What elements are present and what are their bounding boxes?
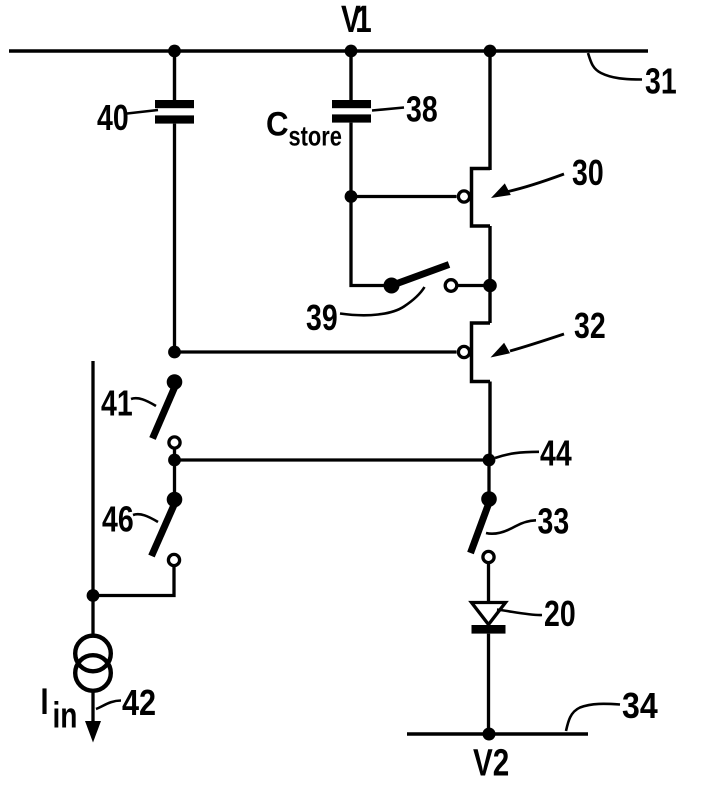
svg-text:40: 40 — [97, 97, 129, 138]
label C store — [266, 104, 342, 152]
switch 46 — [152, 492, 183, 566]
wire node 44 down to switch 33 — [487, 460, 490, 499]
node 44 left — [168, 454, 181, 467]
leader line to label 42 — [96, 701, 121, 710]
label 46 — [102, 498, 134, 539]
label 33 — [538, 500, 570, 541]
label 31 — [645, 60, 677, 101]
wire middle branch rail to capacitor 38 — [349, 51, 352, 101]
label I in — [41, 682, 78, 736]
svg-text:34: 34 — [622, 686, 658, 726]
wire left branch from rail to capacitor 40 — [173, 51, 176, 101]
label V2 — [473, 742, 509, 784]
wire bottom supply rail 34 — [407, 732, 588, 736]
capacitor C-store 38 — [332, 100, 371, 123]
svg-text:20: 20 — [544, 593, 576, 634]
leader line to label 46 — [133, 514, 158, 522]
switch 33 — [471, 491, 497, 562]
leader line to label 34 — [566, 704, 620, 731]
arrow pointing to transistor 30 — [491, 174, 564, 198]
svg-text:31: 31 — [645, 60, 677, 101]
svg-text:44: 44 — [540, 432, 572, 473]
wire transistor 30 to node of switch 39 — [488, 226, 491, 323]
transistor 30 gate bubble — [458, 191, 469, 202]
transistor 30 (PMOS, source-drain jog) — [472, 169, 491, 227]
leader line to label 39 — [340, 287, 425, 315]
label 34 — [622, 686, 658, 726]
label 41 — [101, 382, 133, 423]
wire gate of transistor 32 — [175, 350, 457, 353]
wire diode 20 to bottom rail — [487, 634, 490, 734]
svg-text:in: in — [53, 695, 78, 735]
node rail / left branch — [168, 45, 181, 58]
transistor 32 gate bubble — [458, 346, 469, 357]
label 30 — [572, 152, 604, 193]
diode 20 — [472, 603, 506, 634]
svg-text:46: 46 — [102, 498, 134, 539]
svg-text:41: 41 — [101, 382, 133, 423]
label V1 — [341, 0, 371, 41]
wire top supply rail 31 — [9, 49, 648, 53]
label 38 — [406, 88, 438, 129]
wire left branch capacitor 40 to gate node — [173, 124, 176, 352]
svg-text:I: I — [41, 682, 49, 723]
label 32 — [574, 305, 606, 346]
current source 42 — [75, 636, 111, 691]
wire right branch rail to transistor 30 — [488, 51, 491, 170]
node bottom rail — [483, 728, 496, 741]
svg-text:39: 39 — [306, 297, 338, 338]
capacitor 40 — [155, 100, 194, 124]
node rail / right branch — [484, 45, 497, 58]
arrowhead of current I in — [85, 721, 101, 743]
svg-text:33: 33 — [538, 500, 570, 541]
svg-text:30: 30 — [572, 152, 604, 193]
wire node 44 horizontal — [175, 458, 490, 461]
node gate tap of transistor 32 — [168, 346, 181, 359]
wire far-left vertical column line — [91, 361, 94, 635]
label 44 — [540, 432, 572, 473]
node bottom left — [87, 589, 100, 602]
node right of switch 39 — [483, 279, 497, 293]
leader line to label 33 — [486, 520, 536, 533]
arrow pointing to transistor 32 — [491, 334, 565, 358]
svg-text:38: 38 — [406, 88, 438, 129]
wire node 44 down to switch 46 — [173, 460, 176, 497]
svg-text:V1: V1 — [341, 0, 371, 41]
leader line to label 31 — [588, 53, 642, 80]
wire switch 33 to diode 20 — [487, 563, 490, 605]
leader line to label 44 — [495, 452, 539, 458]
label 39 — [306, 297, 338, 338]
leader line to label 20 — [497, 610, 542, 616]
svg-text:C: C — [266, 104, 289, 143]
transistor 32 (PMOS, source-drain jog) — [472, 323, 491, 382]
svg-text:32: 32 — [574, 305, 606, 346]
wire middle branch capacitor 38 down to switch 39 elbow — [351, 123, 387, 286]
label 20 — [544, 593, 576, 634]
node rail / middle branch — [345, 45, 358, 58]
label 42 — [122, 683, 156, 724]
switch 39 — [384, 265, 485, 294]
svg-text:42: 42 — [122, 683, 156, 724]
wire gate of transistor 30 — [351, 195, 457, 198]
switch 41 — [153, 374, 183, 460]
leader line to label 40 — [127, 110, 158, 114]
svg-text:V2: V2 — [473, 742, 509, 784]
wire switch 46 to bottom-left node — [93, 566, 174, 596]
leader line to label 38 — [372, 108, 404, 111]
wire below current source — [91, 691, 94, 726]
wire transistor 32 down to node 44 — [488, 382, 491, 461]
node gate tap of transistor 30 — [345, 190, 358, 203]
node 44 right — [483, 454, 496, 467]
leader line to label 41 — [131, 398, 156, 406]
svg-text:store: store — [289, 121, 342, 152]
label 40 — [97, 97, 129, 138]
